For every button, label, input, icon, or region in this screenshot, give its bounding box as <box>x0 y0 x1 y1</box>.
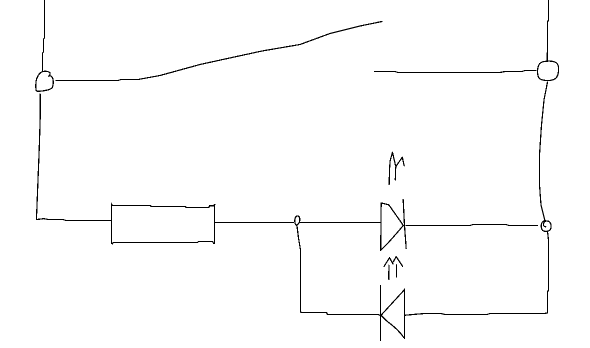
wire: lower LED cathode to left branch <box>301 312 381 316</box>
wire: branch down from resistor junction <box>297 226 301 311</box>
LED D2 (lower, pointing left) triangle <box>381 290 404 338</box>
LED D1 (upper, pointing right) triangle <box>381 203 404 251</box>
wire: right terminal down to LED node <box>540 82 548 221</box>
wire: top-left supply lead <box>43 0 45 71</box>
wire: left lead to resistor <box>36 219 111 221</box>
switch arm (open blade rising to upper right) <box>138 22 382 80</box>
wire: switch fixed contact to right terminal <box>375 71 537 73</box>
wire: right side down to bottom rail <box>548 232 549 313</box>
wire: top-right supply lead <box>547 0 548 61</box>
wire: left pole to switch hinge <box>56 80 138 81</box>
wire: left side vertical <box>36 94 40 219</box>
LED D2 right edge <box>404 289 406 339</box>
junction loop (after resistor) <box>295 216 300 225</box>
LED D1 cathode bar <box>403 200 406 249</box>
LED D2 cathode bar <box>380 286 382 341</box>
wire: upper LED cathode to right node <box>406 225 538 226</box>
switch pole terminal (left blob) <box>36 71 53 91</box>
light arrows above lower LED <box>384 258 393 267</box>
junction loop (right LED node) <box>541 221 551 232</box>
light arrows above upper LED <box>389 152 395 184</box>
switch contact terminal (right blob) <box>538 61 559 80</box>
resistor R1 <box>112 204 215 244</box>
wire: bottom rail to lower LED anode <box>405 313 547 315</box>
wire: junction to upper LED anode <box>300 222 381 224</box>
wire: resistor to junction <box>215 222 294 224</box>
